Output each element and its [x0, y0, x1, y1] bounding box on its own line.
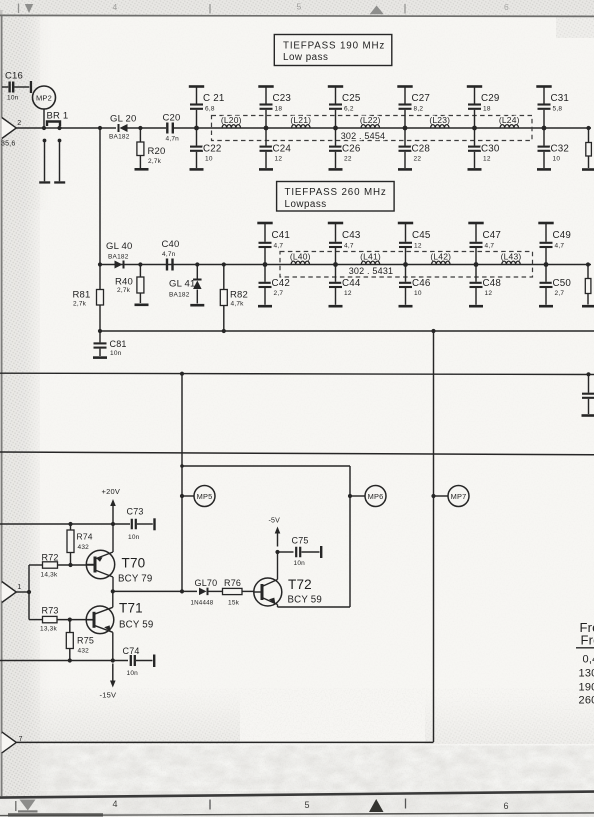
svg-text:MP2: MP2 — [36, 94, 52, 103]
inductor L41 coil — [361, 261, 379, 264]
svg-text:C20: C20 — [163, 113, 181, 124]
bus line 1 — [100, 330, 594, 332]
svg-text:Fre: Fre — [581, 633, 594, 648]
svg-text:R82: R82 — [230, 290, 248, 301]
svg-text:R73: R73 — [42, 606, 59, 616]
inductor L42 coil — [432, 261, 450, 264]
node filter1 4 — [403, 126, 408, 131]
svg-text:BCY 59: BCY 59 — [288, 595, 322, 606]
wire MP2 to main line — [43, 109, 45, 128]
BR1 contact post left — [43, 139, 47, 143]
-5V supply arrow — [277, 531, 279, 547]
svg-text:T70: T70 — [122, 556, 146, 571]
svg-text:C40: C40 — [162, 239, 180, 250]
capacitor C30 (bottom, node 5) — [474, 128, 476, 146]
inductor L23 coil — [431, 125, 449, 128]
svg-text:4,7: 4,7 — [274, 243, 284, 250]
bottom frame line — [0, 792, 594, 798]
svg-text:C48: C48 — [483, 278, 502, 289]
svg-text:TIEFPASS 190 MHz: TIEFPASS 190 MHz — [283, 41, 385, 52]
capacitor C43 (top, node 2) — [335, 224, 337, 242]
svg-text:6: 6 — [504, 801, 509, 811]
node R20 — [138, 126, 142, 130]
node bus2 to MP5 vertical — [180, 372, 184, 376]
node filter2 2 — [333, 262, 338, 267]
svg-text:BCY 59: BCY 59 — [119, 620, 153, 631]
svg-text:C75: C75 — [292, 536, 309, 546]
ground R20 — [135, 168, 149, 171]
svg-text:4,7n: 4,7n — [162, 251, 176, 258]
svg-text:(L42): (L42) — [430, 251, 451, 261]
svg-text:260: 260 — [579, 695, 594, 707]
svg-text:R81: R81 — [73, 290, 91, 301]
svg-text:2,7: 2,7 — [274, 290, 284, 297]
bottom ruler open triangle marker — [20, 800, 36, 811]
svg-text:+20V: +20V — [102, 487, 121, 496]
svg-text:2,7k: 2,7k — [148, 158, 162, 165]
left margin halftone texture — [0, 10, 40, 798]
resistor R20 — [139, 128, 141, 142]
paper speckle noise lower area — [0, 688, 594, 817]
top right corner texture below frame — [556, 16, 594, 38]
wire to MP5 — [182, 495, 194, 497]
node R82 — [222, 262, 226, 266]
svg-text:T71: T71 — [119, 601, 143, 616]
table header underline — [576, 647, 594, 649]
resistor R73 — [29, 619, 43, 621]
svg-text:12: 12 — [414, 243, 422, 250]
node C81 — [98, 329, 102, 333]
svg-text:C49: C49 — [553, 230, 572, 241]
svg-text:T72: T72 — [288, 577, 312, 592]
node R82 on bus 1 — [222, 329, 226, 333]
lower-right gray speckle above wire — [425, 695, 594, 744]
inductor L24 coil — [500, 125, 518, 128]
measuring point MP6 — [365, 486, 386, 507]
measuring point MP5 — [194, 486, 215, 507]
svg-text:(L22): (L22) — [360, 115, 381, 125]
diode GL40 — [115, 261, 123, 269]
wire GL70 to R76 — [208, 590, 223, 592]
-15V supply arrow — [112, 664, 114, 684]
top frame line — [0, 15, 594, 16]
node inner box corner — [180, 464, 184, 468]
capacitor C31 (top, node 6) — [543, 88, 545, 104]
svg-text:12: 12 — [275, 156, 283, 163]
svg-text:190: 190 — [579, 681, 594, 693]
svg-text:10n: 10n — [7, 95, 19, 102]
left margin texture upper part — [0, 10, 52, 210]
top ruler triangle marker — [370, 6, 384, 15]
svg-text:C25: C25 — [342, 93, 361, 104]
svg-text:C50: C50 — [553, 278, 572, 289]
svg-text:R40: R40 — [115, 277, 133, 288]
svg-text:R72: R72 — [42, 553, 59, 563]
capacitor C28 (bottom, node 4) — [404, 128, 406, 146]
filter 1 title box TIEFPASS 190 MHz — [274, 35, 392, 66]
capacitor C81 — [99, 331, 101, 342]
svg-text:6: 6 — [504, 2, 509, 12]
top ruler tick 2 — [209, 4, 211, 14]
svg-text:-5V: -5V — [269, 518, 281, 525]
capacitor C41 (top, node 1) — [264, 224, 266, 242]
bottom-left dark smudge — [8, 813, 103, 816]
capacitor C32 (bottom, node 6) — [543, 128, 545, 146]
node MP5 stub — [180, 494, 184, 498]
svg-text:-15V: -15V — [100, 691, 117, 700]
svg-text:12: 12 — [483, 156, 491, 163]
svg-text:C47: C47 — [483, 230, 502, 241]
svg-text:4,7: 4,7 — [555, 243, 565, 250]
node BR1 right — [57, 126, 61, 130]
svg-text:2: 2 — [17, 120, 21, 127]
measuring point MP7 — [448, 486, 469, 507]
svg-text:C 21: C 21 — [203, 93, 225, 104]
wire lower vertical right — [433, 331, 435, 742]
svg-text:C74: C74 — [123, 646, 140, 656]
svg-text:GL 41: GL 41 — [169, 279, 196, 290]
inductor L22 coil — [361, 125, 379, 128]
node T71 emitter rail — [111, 658, 115, 662]
node R75 bottom — [68, 658, 72, 662]
svg-text:10: 10 — [205, 156, 213, 163]
svg-text:8,2: 8,2 — [414, 106, 424, 113]
jumper BR1 link — [47, 122, 60, 127]
svg-text:Lowpass: Lowpass — [285, 199, 327, 210]
svg-text:10: 10 — [414, 290, 422, 297]
svg-text:2,7k: 2,7k — [117, 287, 131, 294]
bottom ruler filled triangle marker — [369, 799, 384, 812]
inner wire box bottom — [278, 606, 351, 608]
svg-text:(L40): (L40) — [290, 251, 311, 261]
top ruler tick 1 — [18, 4, 20, 14]
transistor T70 — [86, 550, 114, 578]
node T72 collector C75 — [275, 550, 279, 554]
svg-text:22: 22 — [344, 156, 352, 163]
svg-text:432: 432 — [78, 544, 90, 551]
svg-text:C30: C30 — [481, 144, 500, 155]
bottom ruler tick 1 — [15, 801, 17, 811]
svg-text:12: 12 — [344, 290, 352, 297]
node output to MP5 line — [180, 589, 184, 593]
ground terminating resistor filter 2 — [582, 305, 594, 308]
diode GL70 — [199, 588, 207, 596]
node R74 top — [68, 522, 72, 526]
bus line 2 — [0, 373, 594, 374]
svg-text:(L41): (L41) — [360, 251, 381, 261]
svg-text:18: 18 — [483, 106, 491, 113]
left margin texture lower part — [0, 640, 52, 797]
inductor L20 coil — [222, 125, 240, 128]
svg-text:(L21): (L21) — [290, 115, 311, 125]
svg-text:2,7k: 2,7k — [73, 301, 87, 308]
svg-text:4,7: 4,7 — [485, 243, 495, 250]
terminating resistor filter 2 — [587, 265, 589, 279]
node second row branch — [98, 262, 102, 266]
node bus1 to lower vertical — [431, 329, 435, 333]
svg-text:18: 18 — [275, 106, 283, 113]
bottom second line — [0, 813, 594, 816]
resistor R75 — [69, 620, 71, 633]
wire input vertical — [28, 565, 30, 620]
lower-left gray speckle above wire — [0, 690, 240, 744]
node input split — [27, 590, 31, 594]
node branch to second row — [98, 126, 102, 130]
capacitor C45 (top, node 3) — [405, 224, 407, 242]
resistor R76 — [223, 588, 243, 594]
node MP7 stub — [431, 494, 435, 498]
svg-text:C27: C27 — [412, 93, 431, 104]
capacitor C26 (bottom, node 3) — [335, 128, 337, 146]
wire branch down to second row — [99, 128, 101, 265]
node filter2 3 — [403, 262, 408, 267]
svg-text:C26: C26 — [342, 144, 361, 155]
connector arrow pin 1 — [2, 582, 16, 603]
svg-text:15k: 15k — [228, 600, 240, 607]
svg-text:C23: C23 — [273, 93, 292, 104]
filter 2 title box TIEFPASS 260 MHz — [277, 182, 395, 212]
svg-text:C43: C43 — [342, 230, 361, 241]
capacitor C75 — [278, 551, 294, 553]
filter 1 module dashed box 302.5454 — [212, 116, 533, 141]
svg-text:C24: C24 — [273, 144, 292, 155]
capacitor C50 (bottom, node 5) — [545, 265, 547, 282]
svg-text:C42: C42 — [272, 278, 291, 289]
inductor L21 coil — [292, 125, 310, 128]
node R75 top — [68, 618, 72, 622]
inductor L40 coil — [291, 261, 309, 264]
wire GL20 to R20 node — [127, 127, 167, 129]
svg-text:6,8: 6,8 — [205, 106, 215, 113]
svg-text:C45: C45 — [412, 230, 431, 241]
BR1 contact post right — [58, 139, 62, 143]
inner wire box right — [349, 466, 351, 607]
capacitor C29 (top, node 5) — [474, 88, 476, 104]
svg-text:C44: C44 — [342, 278, 361, 289]
node +20V collector — [111, 522, 115, 526]
svg-text:4,7k: 4,7k — [231, 301, 245, 308]
svg-text:GL 20: GL 20 — [110, 114, 137, 125]
filter 2 module dashed box 302.5431 — [280, 252, 533, 278]
capacitor C21 (top, node 1) — [196, 88, 198, 104]
left frame line — [1, 16, 3, 118]
svg-text:10n: 10n — [128, 534, 140, 541]
node MP6 stub — [348, 494, 352, 498]
svg-text:(L43): (L43) — [501, 251, 522, 261]
svg-text:(L20): (L20) — [221, 115, 242, 125]
svg-text:GL70: GL70 — [195, 578, 218, 588]
node GL41 — [195, 262, 199, 266]
bus line 3 — [0, 452, 594, 455]
diode GL20 — [120, 124, 128, 132]
svg-text:BA182: BA182 — [109, 134, 130, 141]
svg-text:R74: R74 — [77, 532, 93, 542]
svg-text:R75: R75 — [77, 636, 94, 646]
wire lower horizontal bottom — [16, 741, 433, 743]
capacitor C24 (bottom, node 2) — [265, 128, 267, 146]
svg-text:14,3k: 14,3k — [41, 572, 58, 579]
capacitor C74 — [130, 655, 132, 666]
node T70 emitter output — [111, 589, 115, 593]
connector arrow pin 2 — [2, 118, 16, 139]
capacitor C46 (bottom, node 3) — [405, 265, 407, 282]
transistor T72 — [254, 578, 282, 606]
svg-text:R76: R76 — [224, 578, 241, 588]
bottom ruler band background — [0, 791, 594, 817]
node filter2 1 — [263, 262, 268, 267]
capacitor C47 (top, node 4) — [475, 224, 477, 242]
svg-text:MP7: MP7 — [451, 492, 467, 501]
wire through BR1 — [44, 127, 60, 129]
capacitor C44 (bottom, node 2) — [335, 265, 337, 282]
resistor R81 — [99, 265, 101, 290]
resistor R74 — [70, 524, 72, 530]
svg-text:1N4448: 1N4448 — [191, 600, 214, 607]
+20V supply arrow — [112, 503, 114, 524]
node R40 — [138, 262, 142, 266]
transistor T71 — [86, 606, 114, 634]
svg-text:22: 22 — [414, 156, 422, 163]
ground R40 — [135, 304, 149, 307]
svg-text:35,6: 35,6 — [1, 141, 15, 148]
svg-text:2,7: 2,7 — [555, 290, 565, 297]
terminating resistor filter 1 — [588, 128, 590, 143]
svg-text:C73: C73 — [127, 507, 144, 517]
capacitor C16 — [2, 86, 8, 88]
wire C20 to filter — [174, 127, 197, 129]
svg-text:C16: C16 — [5, 71, 23, 82]
bottom ruler tick 3 — [405, 799, 407, 809]
wire to MP6 — [350, 495, 365, 497]
svg-text:13,3k: 13,3k — [40, 626, 57, 633]
svg-text:(L23): (L23) — [429, 115, 450, 125]
svg-text:C22: C22 — [203, 144, 222, 155]
second row wire — [100, 264, 591, 266]
capacitor C49 (top, node 5) — [545, 224, 547, 242]
svg-text:4: 4 — [113, 2, 118, 12]
wire BR1 to branch node — [60, 127, 101, 129]
svg-text:10n: 10n — [127, 670, 139, 677]
node filter2 5 — [544, 262, 549, 267]
svg-text:BCY 79: BCY 79 — [118, 574, 152, 585]
top ruler filled triangle marker — [25, 4, 33, 13]
node filter1 6 — [542, 126, 547, 131]
svg-text:C81: C81 — [110, 339, 127, 349]
svg-text:5: 5 — [297, 2, 302, 12]
wire node to GL20 — [100, 127, 116, 129]
svg-text:C41: C41 — [272, 230, 291, 241]
svg-text:4: 4 — [113, 799, 118, 809]
svg-text:(L24): (L24) — [499, 115, 520, 125]
ground terminating resistor filter 1 — [582, 168, 594, 171]
node BR1 left — [42, 126, 46, 130]
svg-text:C28: C28 — [412, 144, 431, 155]
svg-text:6,2: 6,2 — [344, 106, 354, 113]
svg-text:GL 40: GL 40 — [106, 241, 133, 252]
node bus2 right capacitor — [586, 372, 590, 376]
bottom ruler tick 2 — [209, 800, 211, 810]
node filter 1 output — [586, 126, 590, 130]
node R74 bottom on base — [68, 563, 72, 567]
svg-text:5: 5 — [305, 800, 310, 810]
svg-text:0,4: 0,4 — [583, 654, 594, 666]
svg-text:BR 1: BR 1 — [47, 111, 69, 122]
svg-text:302 . 5454: 302 . 5454 — [341, 131, 386, 141]
svg-text:4,7: 4,7 — [344, 243, 354, 250]
svg-text:BA182: BA182 — [169, 292, 190, 299]
capacitor C25 (top, node 3) — [335, 88, 337, 104]
inductor L43 coil — [502, 261, 520, 264]
filter 1 main wire — [197, 127, 592, 129]
ground GL41 — [190, 304, 204, 307]
output wire — [113, 590, 197, 592]
node filter 2 output — [586, 262, 590, 266]
svg-text:C32: C32 — [551, 144, 570, 155]
wire to MP7 — [434, 495, 449, 497]
svg-text:C29: C29 — [481, 93, 500, 104]
emitter rail wire — [0, 660, 128, 662]
capacitor C20 — [166, 123, 168, 134]
node filter1 2 — [264, 126, 269, 131]
node filter1 3 — [333, 126, 338, 131]
svg-text:10n: 10n — [110, 350, 122, 357]
svg-text:MP5: MP5 — [197, 492, 213, 501]
svg-text:7: 7 — [19, 736, 23, 743]
svg-text:4,7n: 4,7n — [166, 136, 180, 143]
resistor R72 — [29, 564, 43, 566]
lower gray mottled zone — [0, 746, 594, 793]
capacitor C48 (bottom, node 4) — [475, 265, 477, 282]
svg-text:1: 1 — [17, 584, 21, 591]
svg-text:MP6: MP6 — [368, 492, 384, 501]
svg-text:Low pass: Low pass — [283, 52, 328, 63]
svg-text:TIEFPASS 260 MHz: TIEFPASS 260 MHz — [285, 187, 387, 198]
svg-text:12: 12 — [485, 290, 493, 297]
connector arrow pin 7 — [2, 732, 16, 753]
svg-text:432: 432 — [78, 648, 90, 655]
top ruler band background — [0, 0, 594, 16]
svg-text:C46: C46 — [412, 278, 431, 289]
node filter2 4 — [474, 262, 479, 267]
wire input 1 — [16, 591, 29, 593]
node filter1 1 — [194, 126, 199, 131]
left edge shading — [0, 10, 3, 798]
inner wire box top — [182, 465, 350, 467]
svg-text:130: 130 — [579, 667, 594, 679]
svg-text:5,8: 5,8 — [553, 106, 563, 113]
capacitor C73 — [131, 519, 133, 530]
svg-text:10n: 10n — [294, 560, 306, 567]
capacitor C22 (bottom, node 1) — [196, 128, 198, 146]
capacitor C27 (top, node 4) — [404, 88, 406, 104]
capacitor C42 (bottom, node 1) — [264, 265, 266, 282]
wire MP5 vertical — [181, 374, 183, 592]
capacitor C23 (top, node 2) — [265, 88, 267, 104]
wire input to BR1 — [16, 127, 44, 129]
top ruler tick 3 — [404, 4, 406, 14]
svg-text:BA182: BA182 — [108, 254, 129, 261]
svg-text:10: 10 — [553, 156, 561, 163]
measuring point MP2 — [33, 86, 56, 109]
+20V supply rail wire — [0, 523, 130, 525]
resistor R40 — [139, 265, 141, 278]
svg-text:302 . 5431: 302 . 5431 — [349, 266, 394, 276]
node filter1 5 — [472, 126, 477, 131]
capacitor at right edge on bus 2 — [588, 374, 590, 392]
diode GL41 — [196, 265, 198, 281]
svg-text:R20: R20 — [148, 146, 166, 157]
svg-text:C31: C31 — [551, 93, 570, 104]
